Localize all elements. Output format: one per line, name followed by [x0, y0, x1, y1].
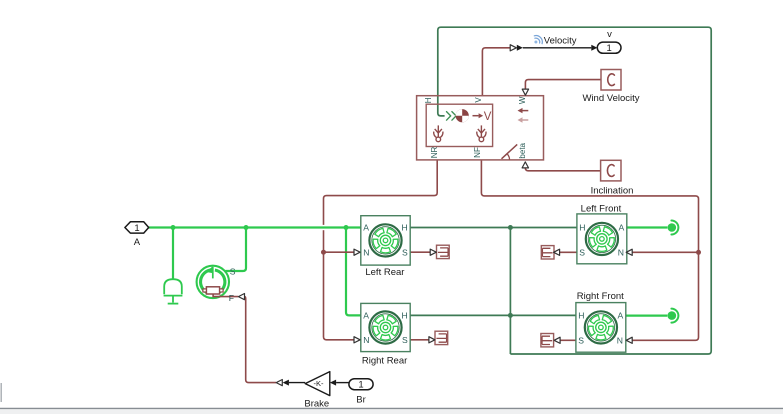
svg-text:H: H [402, 311, 408, 321]
svg-text:S: S [578, 335, 584, 345]
svg-text:H: H [578, 311, 584, 321]
svg-text:Left Front: Left Front [581, 203, 622, 214]
svg-text:N: N [618, 248, 624, 258]
svg-text:Wind Velocity: Wind Velocity [582, 93, 639, 104]
svg-text:Left Rear: Left Rear [365, 267, 404, 278]
svg-text:Right Front: Right Front [577, 291, 624, 302]
svg-text:N: N [363, 247, 369, 257]
svg-text:H: H [424, 97, 433, 103]
svg-text:V: V [474, 97, 483, 103]
svg-text:A: A [363, 223, 369, 233]
svg-text:S: S [402, 247, 408, 257]
svg-text:N: N [617, 335, 623, 345]
svg-text:1: 1 [134, 223, 139, 234]
svg-text:NR: NR [430, 147, 439, 159]
svg-text:v: v [607, 29, 612, 40]
svg-text:S: S [579, 248, 585, 258]
svg-text:Brake: Brake [304, 398, 329, 409]
svg-text:Inclination: Inclination [591, 186, 634, 197]
svg-text:F: F [229, 293, 234, 303]
svg-text:S: S [230, 266, 236, 276]
svg-text:A: A [134, 237, 141, 248]
svg-text:N: N [363, 335, 369, 345]
svg-text:1: 1 [607, 43, 612, 54]
svg-text:H: H [402, 223, 408, 233]
svg-text:H: H [579, 223, 585, 233]
svg-text:1: 1 [358, 379, 363, 390]
svg-text:S: S [402, 335, 408, 345]
svg-text:NF: NF [473, 147, 482, 158]
svg-text:V: V [484, 111, 492, 123]
svg-text:W: W [518, 96, 527, 104]
svg-text:beta: beta [518, 142, 527, 158]
svg-text:A: A [619, 223, 625, 233]
svg-text:A: A [618, 311, 624, 321]
svg-text:Br: Br [356, 394, 366, 405]
svg-text:Right Rear: Right Rear [362, 356, 407, 367]
svg-text:A: A [363, 311, 369, 321]
svg-text:Velocity: Velocity [544, 36, 577, 47]
svg-text:-K-: -K- [314, 379, 325, 388]
